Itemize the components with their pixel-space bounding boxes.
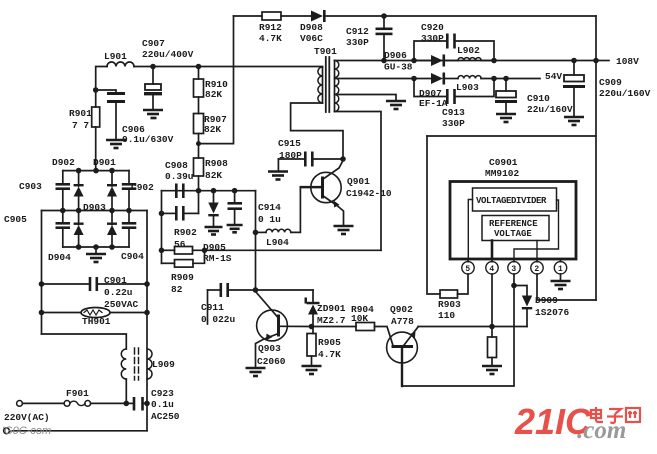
svg-text:RM-1S: RM-1S (203, 253, 232, 264)
svg-text:D901: D901 (93, 157, 116, 168)
svg-text:R902: R902 (174, 227, 197, 238)
svg-text:220u/400V: 220u/400V (142, 49, 194, 60)
svg-text:C908: C908 (165, 160, 188, 171)
svg-text:L902: L902 (457, 45, 480, 56)
svg-text:4: 4 (489, 265, 494, 274)
svg-text:D903: D903 (83, 202, 106, 213)
svg-text:R903: R903 (438, 299, 461, 310)
svg-text:C920: C920 (421, 22, 444, 33)
svg-text:C903: C903 (19, 181, 42, 192)
svg-text:R909: R909 (171, 272, 194, 283)
svg-text:4.7K: 4.7K (259, 33, 282, 44)
svg-text:Q903: Q903 (258, 343, 281, 354)
svg-text:10K: 10K (351, 313, 368, 324)
svg-text:AC250: AC250 (151, 411, 180, 422)
svg-text:1: 1 (558, 265, 563, 274)
svg-text:D906: D906 (384, 50, 407, 61)
svg-text:C901: C901 (104, 275, 127, 286)
svg-text:A778: A778 (391, 316, 414, 327)
svg-text:T901: T901 (314, 46, 337, 57)
svg-text:C904: C904 (121, 251, 144, 262)
svg-text:2: 2 (534, 265, 539, 274)
svg-text:0 1u: 0 1u (258, 214, 281, 225)
svg-text:0 022u: 0 022u (201, 314, 236, 325)
svg-text:C905: C905 (4, 214, 27, 225)
svg-text:TH901: TH901 (82, 316, 111, 327)
svg-text:REFERENCE: REFERENCE (489, 219, 538, 229)
svg-text:MZ2.7: MZ2.7 (317, 315, 346, 326)
svg-text:VOLTAGE: VOLTAGE (494, 229, 532, 239)
svg-text:D905: D905 (203, 242, 226, 253)
svg-text:5: 5 (465, 265, 470, 274)
svg-text:7 7: 7 7 (72, 120, 89, 131)
svg-text:VOLTAGEDIVIDER: VOLTAGEDIVIDER (476, 196, 547, 206)
svg-text:C914: C914 (258, 202, 281, 213)
svg-text:R901: R901 (69, 108, 92, 119)
svg-text:0.1u/630V: 0.1u/630V (122, 134, 174, 145)
svg-text:C909: C909 (599, 77, 622, 88)
svg-text:D904: D904 (48, 252, 71, 263)
svg-text:Q901: Q901 (347, 176, 370, 187)
svg-text:4.7K: 4.7K (318, 349, 341, 360)
svg-text:108V: 108V (616, 56, 639, 67)
svg-text:0.1u: 0.1u (151, 399, 174, 410)
svg-text:MM9102: MM9102 (485, 168, 520, 179)
svg-text:22u/160V: 22u/160V (527, 104, 573, 115)
svg-text:V06C: V06C (300, 33, 323, 44)
svg-text:330P: 330P (442, 118, 465, 129)
svg-text:1S2076: 1S2076 (535, 307, 570, 318)
svg-text:L909: L909 (152, 359, 175, 370)
svg-text:C902: C902 (131, 182, 154, 193)
svg-text:C1942-10: C1942-10 (346, 188, 392, 199)
svg-text:C923: C923 (151, 388, 174, 399)
svg-text:110: 110 (438, 310, 455, 321)
svg-text:82: 82 (171, 284, 183, 295)
svg-text:3: 3 (511, 265, 516, 274)
svg-text:R912: R912 (259, 22, 282, 33)
svg-text:'G0C-com: 'G0C-com (2, 425, 51, 437)
svg-text:C915: C915 (278, 138, 301, 149)
svg-text:250VAC: 250VAC (104, 299, 139, 310)
svg-text:R908: R908 (205, 158, 228, 169)
svg-text:54V: 54V (545, 71, 562, 82)
svg-text:D909: D909 (535, 295, 558, 306)
svg-text:L904: L904 (266, 237, 289, 248)
svg-text:220V(AC): 220V(AC) (4, 412, 50, 423)
svg-text:180P: 180P (279, 150, 302, 161)
svg-text:Q902: Q902 (390, 304, 413, 315)
svg-text:0.22u: 0.22u (104, 287, 133, 298)
svg-text:L903: L903 (456, 82, 479, 93)
svg-text:82K: 82K (205, 89, 222, 100)
svg-text:F901: F901 (66, 388, 89, 399)
svg-text:C913: C913 (442, 107, 465, 118)
svg-text:D902: D902 (52, 157, 75, 168)
svg-text:ZD901: ZD901 (317, 303, 346, 314)
svg-text:R905: R905 (318, 337, 341, 348)
svg-text:C907: C907 (142, 38, 165, 49)
svg-text:GU-38: GU-38 (384, 62, 413, 73)
svg-text:C2060: C2060 (257, 356, 286, 367)
svg-text:330P: 330P (346, 37, 369, 48)
svg-text:0.39u: 0.39u (165, 171, 194, 182)
svg-text:L901: L901 (104, 51, 127, 62)
svg-text:82K: 82K (205, 170, 222, 181)
svg-text:82K: 82K (204, 124, 221, 135)
svg-text:220u/160V: 220u/160V (599, 88, 651, 99)
svg-text:C911: C911 (201, 302, 224, 313)
svg-text:C910: C910 (527, 93, 550, 104)
svg-text:D908: D908 (300, 22, 323, 33)
svg-text:C912: C912 (346, 26, 369, 37)
svg-text:56: 56 (174, 239, 186, 250)
svg-text:C0901: C0901 (489, 157, 518, 168)
svg-text:330P: 330P (421, 33, 444, 44)
